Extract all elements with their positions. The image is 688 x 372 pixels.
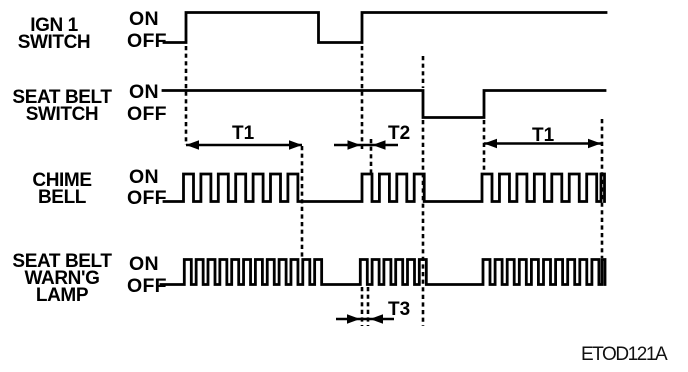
arrow line T1 first span (186, 144, 302, 146)
waveform SEAT BELT WARN'G LAMP (161, 260, 605, 285)
label ON row3 (129, 166, 159, 189)
dashed line at end of second T1 x=602 (601, 119, 604, 258)
dashed line at seat-belt OFF edge x=423 upper (422, 56, 425, 88)
waveform IGN 1 SWITCH (164, 13, 606, 43)
dashed line at IGN re-ON edge x=362 (361, 46, 364, 151)
dashed line T3 right marker x=368 (367, 287, 370, 326)
dashed line at seat-belt ON edge x=484 (483, 120, 486, 173)
label SEAT BELT SWITCH (7, 89, 117, 123)
label ETOD121A (581, 344, 666, 366)
label OFF row3 (127, 187, 167, 210)
arrowhead T1 first right (289, 140, 302, 150)
label IGN 1 SWITCH (0, 17, 109, 51)
arrowhead T2 left (348, 140, 361, 150)
arrowhead T1 second left (484, 139, 497, 149)
label OFF row2 (127, 103, 167, 126)
label T1 first (232, 123, 254, 145)
arrow line T3 span (336, 318, 394, 320)
dashed line T3 left marker x=362 (361, 287, 364, 326)
arrowhead T1 first left (186, 140, 199, 150)
arrow line T2 span (334, 144, 398, 146)
arrowhead T2 right (373, 140, 386, 150)
label ON row1 (129, 8, 159, 31)
label T3 (388, 299, 410, 321)
label ON row4 (129, 253, 159, 276)
arrowhead T1 second right (588, 139, 601, 149)
dashed line at seat-belt OFF edge x=423 lower (422, 120, 425, 326)
waveform SEAT BELT SWITCH (163, 91, 605, 118)
waveform CHIME BELL (164, 174, 605, 202)
label OFF row1 (127, 30, 167, 53)
label SEAT BELT WARN'G LAMP (7, 253, 117, 304)
label CHIME BELL (7, 172, 117, 206)
label ON row2 (129, 81, 159, 104)
dashed line at end of first T1 x=302 (301, 146, 304, 257)
dashed line at IGN ON edge x=186 (185, 46, 188, 145)
label OFF row4 (127, 275, 167, 298)
label T2 (388, 123, 410, 145)
arrowhead T3 right (370, 314, 383, 324)
arrow line T1 second span (484, 142, 601, 144)
arrowhead T3 left (347, 314, 360, 324)
dashed line T2 right marker x=371 (370, 139, 373, 174)
label T1 second (532, 125, 554, 147)
